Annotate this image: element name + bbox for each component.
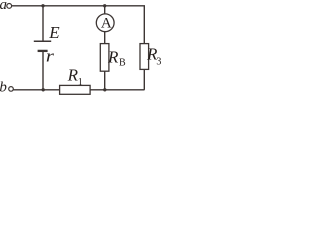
battery short plate [38, 50, 48, 52]
resistor RB [100, 44, 109, 72]
svg-text:a: a [0, 0, 7, 13]
wire bottom-mid [90, 89, 144, 91]
svg-text:A: A [101, 16, 112, 32]
node junction bottom-left [42, 88, 45, 91]
wire battery branch lower [42, 52, 44, 90]
terminal a [7, 4, 12, 9]
wire bottom-left [13, 89, 59, 91]
svg-text:B: B [119, 57, 126, 68]
wire RB to bottom [104, 71, 106, 90]
node junction top-left [41, 4, 44, 7]
svg-text:r: r [46, 46, 54, 65]
wire top rail and right descent [11, 6, 144, 44]
wire ammeter to RB [104, 32, 106, 44]
svg-text:1: 1 [78, 77, 83, 88]
battery E long plate [34, 40, 51, 42]
ammeter A [96, 14, 114, 32]
terminal b [9, 87, 14, 92]
node junction top-mid [103, 4, 106, 7]
svg-text:3: 3 [156, 57, 161, 68]
svg-text:R: R [67, 66, 79, 85]
resistor R3 [140, 44, 149, 70]
wire battery branch upper [42, 6, 44, 41]
svg-text:R: R [107, 48, 119, 67]
wire ammeter branch upper [104, 6, 106, 14]
resistor R1 [60, 85, 91, 94]
svg-text:b: b [0, 80, 7, 96]
wire R3 to bottom [143, 69, 145, 89]
node junction bottom-mid [103, 88, 106, 91]
svg-text:E: E [48, 23, 60, 42]
